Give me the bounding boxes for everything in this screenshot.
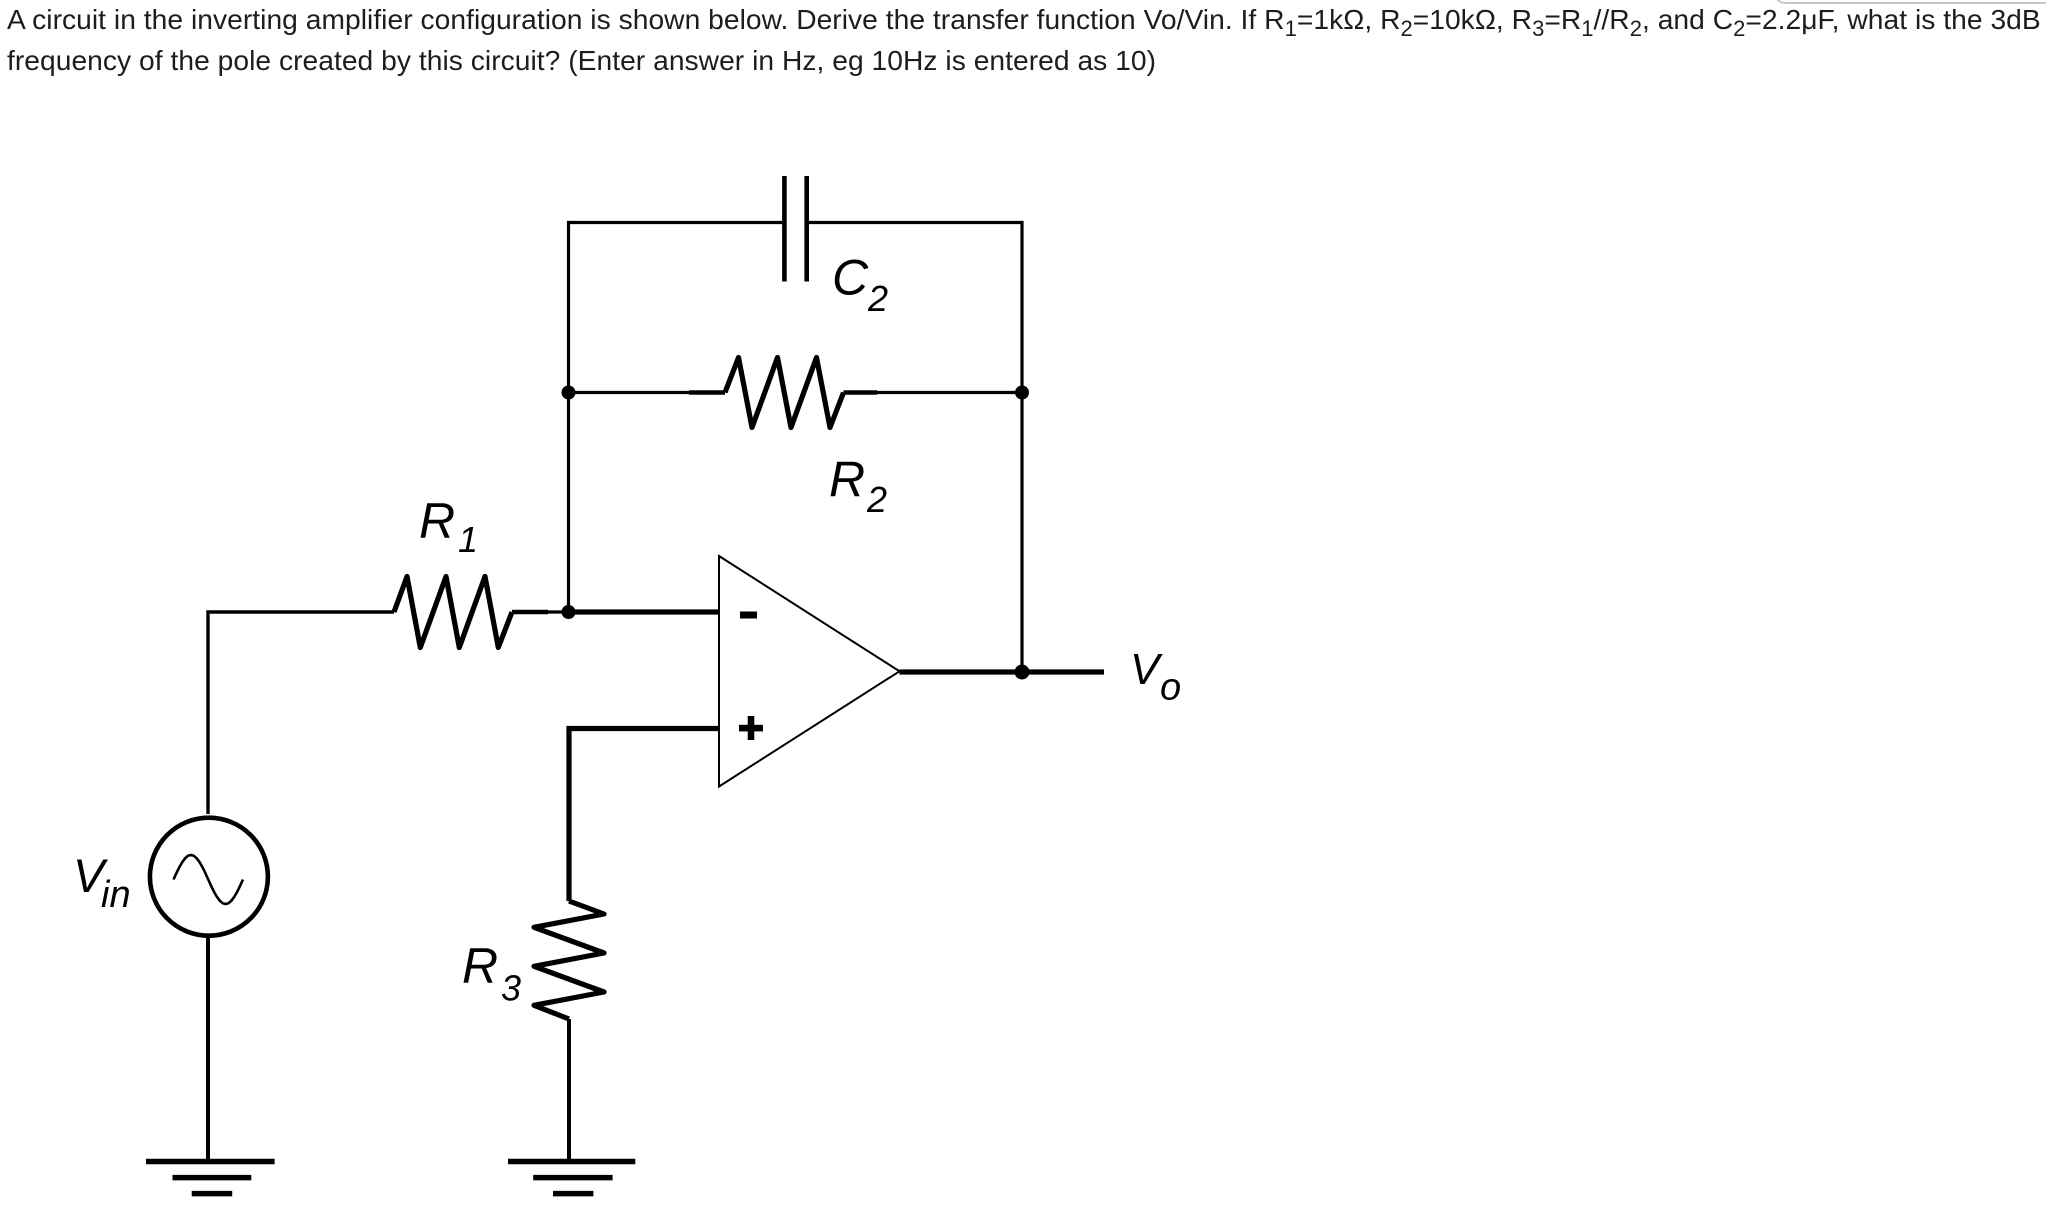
- label C2: [832, 250, 888, 320]
- question text: [7, 0, 2041, 81]
- ground (R3): [508, 1162, 635, 1194]
- label R2: [829, 452, 887, 521]
- wire Vin to ground: [206, 936, 210, 1162]
- svg-text:3: 3: [501, 968, 521, 1009]
- svg-text:V: V: [1130, 645, 1163, 694]
- resistor R3: [534, 901, 604, 1019]
- label Vin: [73, 849, 131, 916]
- wire top feedback row left of C2: [569, 221, 783, 224]
- resistor R2: [725, 358, 844, 428]
- wire R1 right lead: [512, 610, 548, 615]
- ground (Vin): [146, 1162, 275, 1194]
- wire top feedback row right of C2: [809, 221, 1022, 224]
- node output junction: [1015, 665, 1030, 680]
- wire R2 row right lead: [844, 390, 878, 395]
- wire non-inverting input: [569, 729, 719, 902]
- sine wave inside source: [174, 855, 244, 904]
- svg-text:o: o: [1160, 667, 1181, 709]
- capacitor C2: [784, 176, 806, 282]
- wire left feedback vertical: [567, 221, 570, 612]
- wire R2 row left lead: [569, 391, 692, 394]
- svg-text:R: R: [462, 938, 498, 994]
- wire R3 to ground: [567, 1019, 571, 1161]
- node right R2 junction: [1015, 386, 1029, 400]
- wire op-amp output: [900, 669, 1105, 674]
- svg-text:1: 1: [458, 519, 478, 560]
- svg-text:C: C: [832, 250, 869, 306]
- minus sign (inverting input): [740, 612, 757, 619]
- label R3: [462, 938, 521, 1009]
- source Vin: [150, 818, 268, 936]
- svg-text:R: R: [829, 452, 865, 508]
- resistor R1: [394, 577, 512, 648]
- wire right feedback vertical: [1020, 221, 1023, 672]
- plus sign (non-inverting input): [739, 716, 763, 740]
- wire Vin top horizontal to R1: [208, 612, 394, 814]
- op-amp U1: [719, 556, 900, 787]
- label Vo: [1130, 645, 1181, 708]
- svg-text:R: R: [419, 493, 455, 549]
- node inverting input junction: [562, 605, 576, 619]
- label R1: [419, 493, 478, 560]
- floating UI tab edge top-right: [1772, 0, 2046, 4]
- node left R2 junction: [562, 386, 576, 400]
- wire node to inverting input: [569, 609, 720, 614]
- svg-text:in: in: [101, 874, 131, 916]
- svg-text:2: 2: [866, 479, 887, 520]
- svg-text:2: 2: [867, 278, 888, 319]
